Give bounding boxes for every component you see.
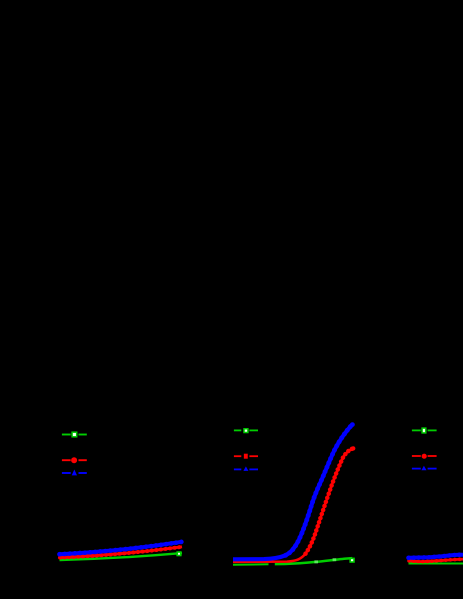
left legend green square marker (72, 432, 77, 437)
middle plot green light marker 1 (314, 560, 318, 563)
middle plot green end marker (350, 558, 354, 562)
middle plot green light marker 2 (333, 558, 337, 561)
middle legend green square marker (244, 429, 248, 433)
left plot green end marker (177, 552, 181, 556)
middle plot blue curve (233, 424, 352, 559)
middle legend red square marker (244, 454, 248, 459)
left plot red curve marker bumps (60, 547, 182, 558)
left plot green curve (60, 553, 183, 560)
middle plot green curve (233, 563, 269, 565)
right legend green dashed line (412, 429, 437, 431)
right plot red curve marker bumps (409, 559, 463, 562)
left legend green dashed line (62, 434, 87, 436)
right legend blue dashed line (412, 468, 437, 470)
right legend red circle marker (422, 454, 427, 459)
left legend blue dashed line (62, 472, 87, 474)
middle legend green dashed line (234, 429, 258, 431)
middle plot red curve (233, 448, 353, 562)
right legend red dashed line (412, 455, 437, 457)
left legend red circle marker (71, 457, 77, 463)
middle legend blue dashed line (234, 468, 258, 470)
left plot red curve (60, 547, 182, 558)
left plot blue curve (60, 542, 183, 554)
middle plot green curve (after dash gap) (275, 558, 353, 564)
right plot green curve (409, 563, 463, 565)
left legend red dashed line (62, 459, 87, 461)
right plot blue curve (409, 555, 463, 558)
middle legend red dashed line (234, 455, 258, 457)
middle legend blue triangle marker (243, 466, 248, 471)
middle plot blue curve tip marker (350, 422, 355, 427)
middle plot red curve tip marker (351, 446, 355, 450)
right plot red curve (409, 559, 463, 562)
right plot blue curve marker bumps (409, 555, 463, 558)
middle plot red curve marker bumps (306, 448, 354, 553)
left plot blue curve marker bumps (60, 542, 183, 554)
right legend blue triangle marker (421, 466, 426, 471)
left legend blue triangle marker (72, 470, 77, 476)
right legend green square marker (422, 428, 426, 433)
middle plot blue curve marker bumps (286, 424, 353, 555)
